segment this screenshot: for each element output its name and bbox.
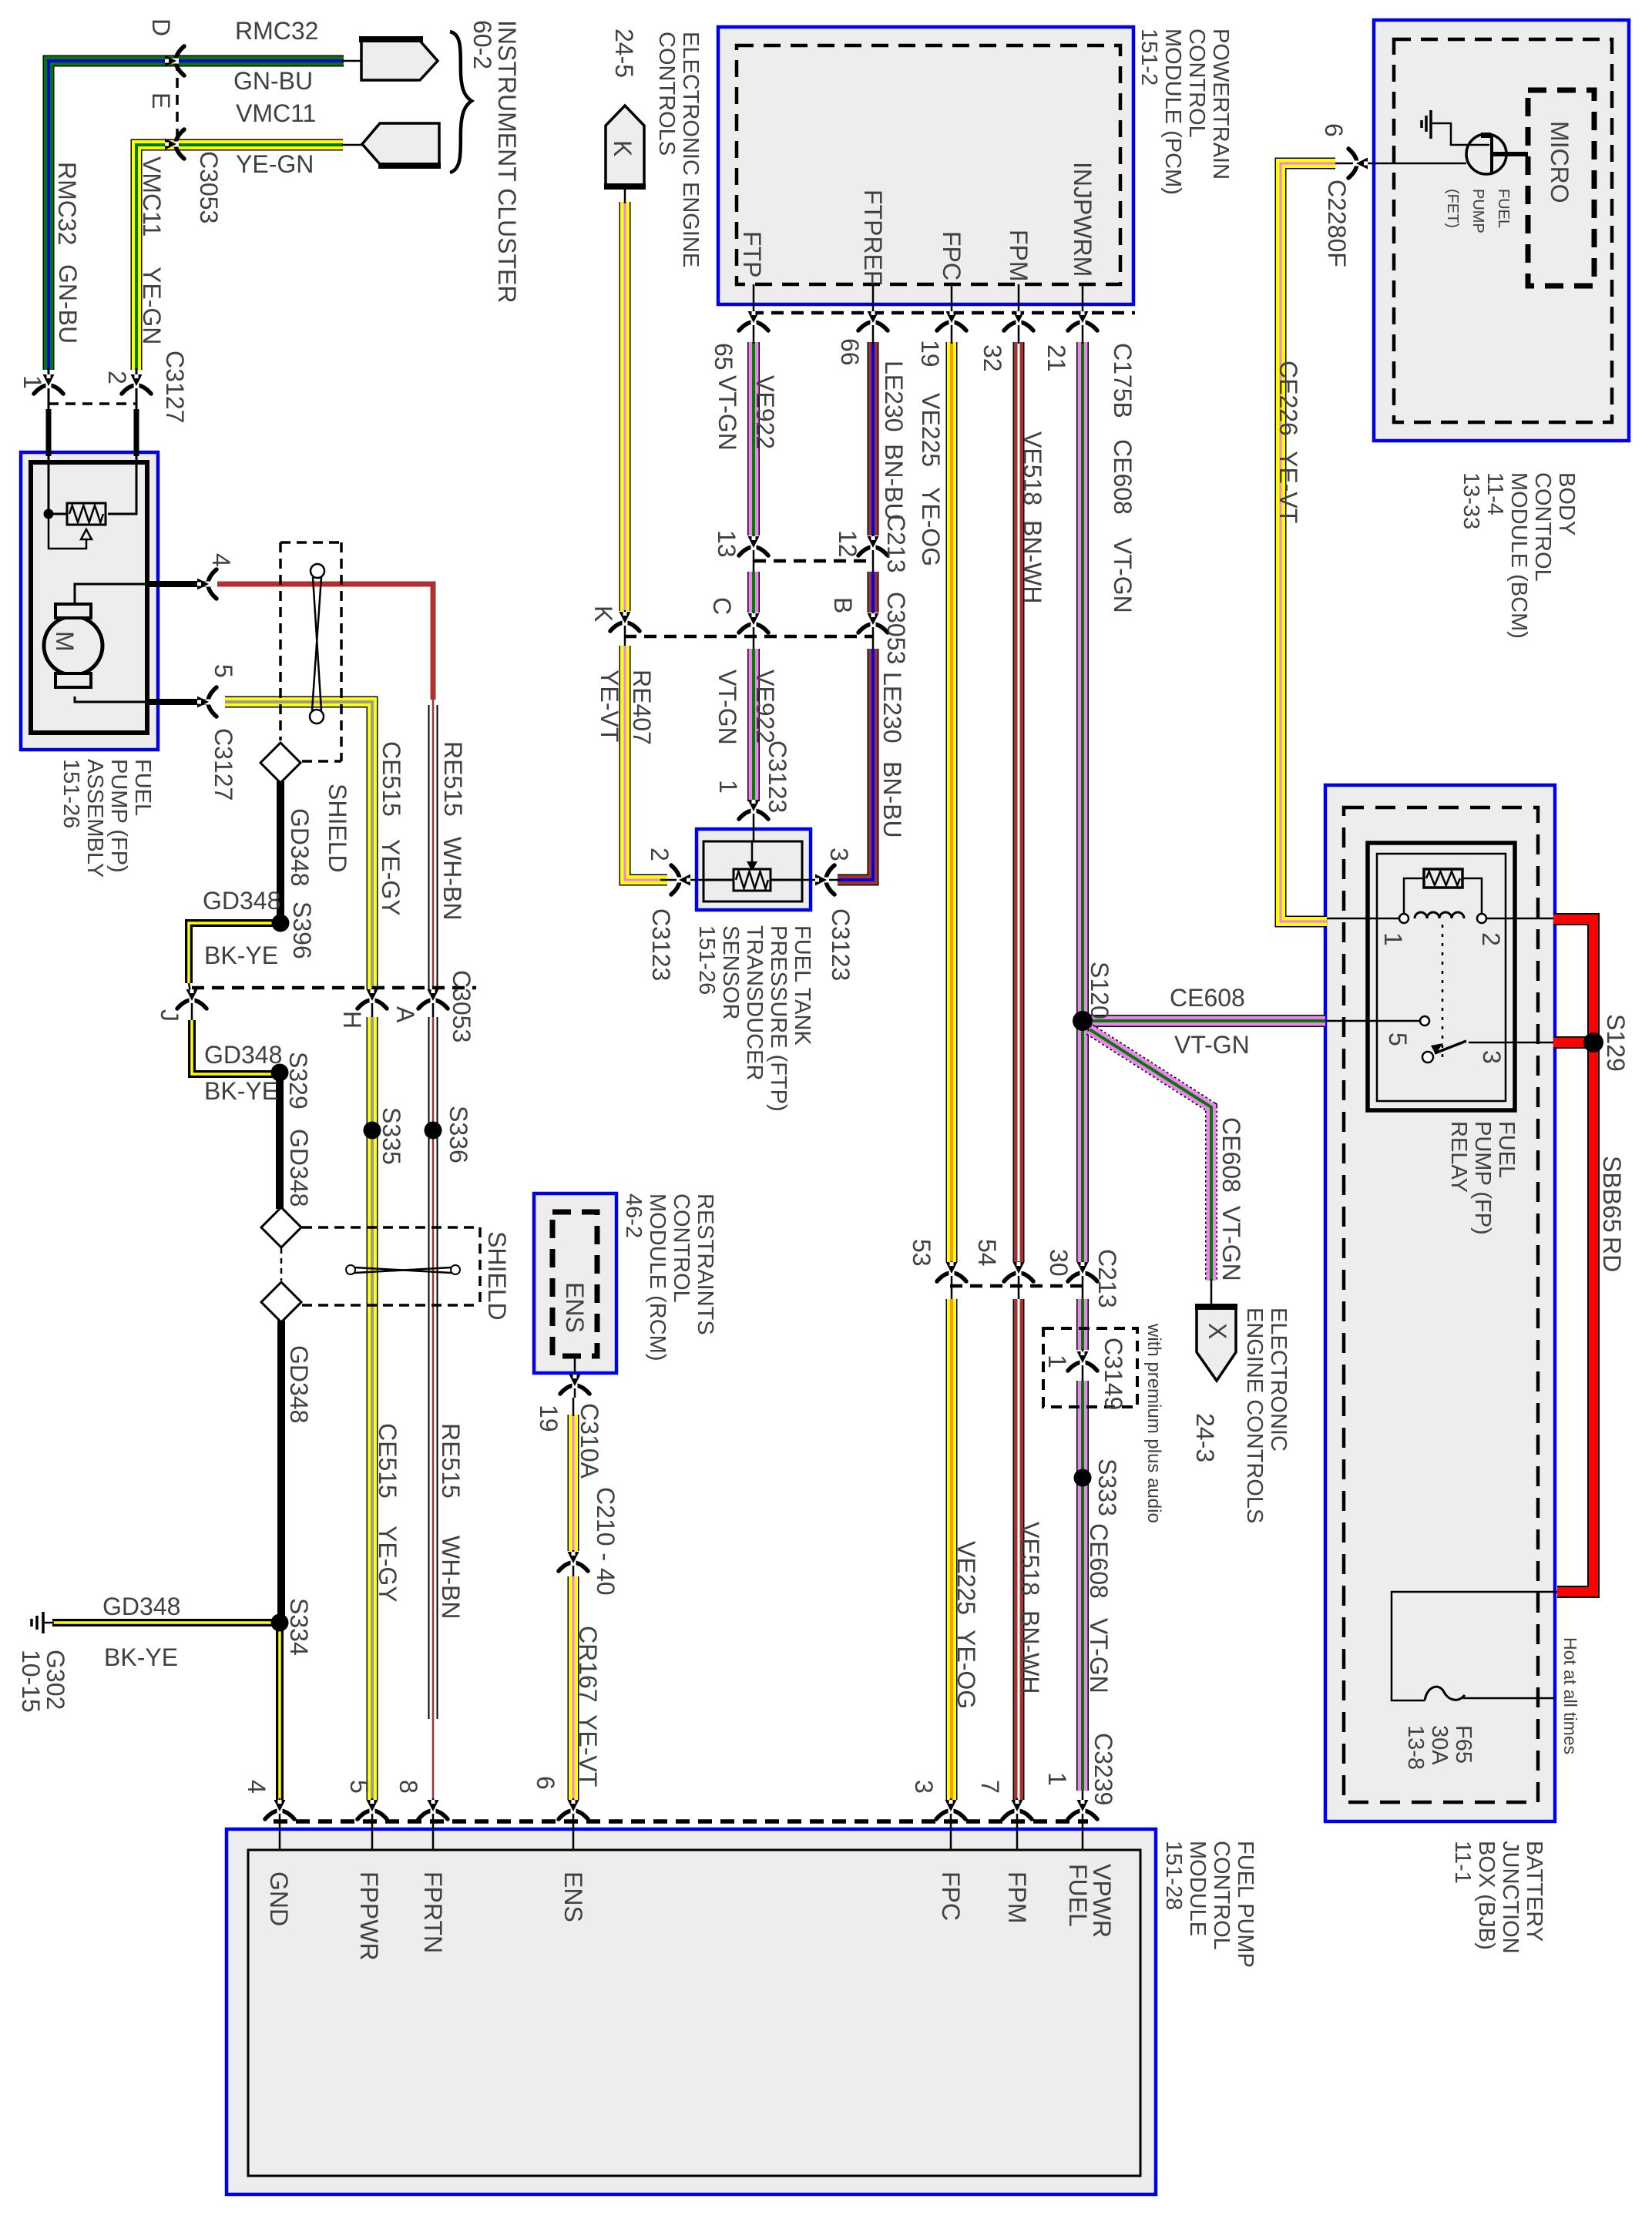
svg-text:5: 5 <box>345 1780 373 1794</box>
svg-text:C310A: C310A <box>576 1403 603 1479</box>
svg-text:CONTROL: CONTROL <box>1209 1841 1234 1950</box>
svg-text:S333: S333 <box>1093 1459 1121 1516</box>
svg-text:VT-GN: VT-GN <box>714 670 741 745</box>
FPCM pin arrow <box>265 1800 294 1819</box>
svg-text:S396: S396 <box>288 901 316 959</box>
svg-text:C175B: C175B <box>1109 343 1137 418</box>
svg-text:C: C <box>708 597 736 615</box>
shield diamond 1 <box>260 743 301 783</box>
svg-text:151-26: 151-26 <box>59 759 83 828</box>
connector C3239 dashed <box>274 1819 1088 1824</box>
svg-text:GN-BU: GN-BU <box>233 67 313 95</box>
splice S396 <box>272 915 290 932</box>
svg-text:11-4: 11-4 <box>1482 472 1507 515</box>
svg-text:SHIELD: SHIELD <box>483 1231 511 1321</box>
svg-text:FUEL: FUEL <box>130 759 155 816</box>
PCM pin arrow <box>1004 311 1033 331</box>
svg-text:VT-GN: VT-GN <box>1174 1031 1250 1059</box>
pin D arrow <box>165 46 184 76</box>
svg-text:S335: S335 <box>378 1107 405 1165</box>
ground (BCM) <box>1429 110 1432 139</box>
wire LE230 BN-BU seg2 <box>868 572 879 613</box>
svg-text:54: 54 <box>973 1239 1001 1267</box>
FPCM box <box>227 1829 1156 2194</box>
fuel pump relay box <box>1368 843 1515 1110</box>
svg-text:CE515: CE515 <box>378 741 405 817</box>
svg-text:FPC: FPC <box>937 1872 965 1921</box>
svg-text:PUMP (FP): PUMP (FP) <box>106 759 131 873</box>
wire CR167 YE-VT upper <box>568 1415 579 1551</box>
svg-text:32: 32 <box>979 344 1006 372</box>
svg-text:YE-GN: YE-GN <box>138 267 166 344</box>
svg-text:ELECTRONIC: ELECTRONIC <box>1266 1308 1291 1452</box>
svg-text:FPM: FPM <box>1005 230 1032 282</box>
svg-text:(FET): (FET) <box>1444 189 1461 228</box>
connector C213 (53 54 30) dashed <box>950 1284 1088 1288</box>
svg-text:YE-VT: YE-VT <box>1274 451 1302 523</box>
svg-text:65: 65 <box>710 343 737 371</box>
svg-text:PUMP: PUMP <box>1469 189 1486 233</box>
splice S129 <box>1583 1032 1603 1052</box>
pin 2 arrow <box>122 374 151 394</box>
svg-text:BODY: BODY <box>1554 472 1579 535</box>
svg-text:2: 2 <box>103 371 131 384</box>
wire VE518 BN-WH lower <box>1013 1299 1025 1800</box>
svg-text:SHIELD: SHIELD <box>324 784 351 873</box>
node sender junction <box>44 509 54 519</box>
svg-text:C213: C213 <box>882 514 910 573</box>
pin E arrow <box>165 129 184 159</box>
svg-text:JUNCTION: JUNCTION <box>1498 1841 1523 1954</box>
svg-text:C3053: C3053 <box>448 970 475 1042</box>
svg-text:ENGINE CONTROLS: ENGINE CONTROLS <box>1242 1308 1267 1523</box>
svg-text:CR167: CR167 <box>574 1626 602 1703</box>
splice S336 <box>425 1122 442 1140</box>
svg-text:C3127: C3127 <box>161 351 189 423</box>
splice S120 <box>1073 1011 1093 1031</box>
svg-text:FUEL: FUEL <box>1494 1121 1519 1178</box>
connector C175B dashed <box>751 311 1135 315</box>
pin 1 (C3149) arrow <box>1068 1351 1097 1371</box>
svg-text:3: 3 <box>1478 1050 1506 1064</box>
FPCM pin stubs <box>279 1798 281 1850</box>
splice S329 <box>271 1064 289 1082</box>
pin A arrow <box>418 989 448 1009</box>
wire GD348 shield to S334 <box>277 1321 285 1618</box>
svg-text:C3123: C3123 <box>827 908 855 981</box>
svg-text:X: X <box>1204 1323 1231 1339</box>
dash between shield diamonds <box>280 1248 283 1281</box>
svg-text:BK-YE: BK-YE <box>204 942 278 969</box>
wire LE230 BN-BU seg3 <box>838 649 873 880</box>
wire pin2 stub <box>134 409 139 456</box>
svg-text:H: H <box>338 1011 366 1029</box>
connector C3127 dashed <box>49 402 136 405</box>
wire FP pin5 internal <box>75 697 158 702</box>
pin 19 (C310A) arrow <box>560 1375 589 1394</box>
shield dashed box (twisted pair) <box>280 541 341 544</box>
FPCM pin arrow <box>936 1800 965 1819</box>
svg-text:INJPWRM: INJPWRM <box>1069 162 1096 277</box>
pin 1 arrow <box>34 374 63 394</box>
svg-text:CONTROL: CONTROL <box>669 1193 693 1303</box>
svg-text:BN-BU: BN-BU <box>880 444 908 521</box>
svg-text:S334: S334 <box>285 1598 313 1656</box>
svg-text:FPRTN: FPRTN <box>419 1872 447 1953</box>
wire SBB65 RD <box>1553 919 1593 1592</box>
relay internals <box>1327 918 1402 920</box>
svg-text:MODULE: MODULE <box>1185 1841 1210 1936</box>
fuel pump assembly box <box>21 452 158 750</box>
BCM box <box>1374 20 1629 441</box>
svg-text:CE226: CE226 <box>1274 361 1302 436</box>
svg-text:CONTROLS: CONTROLS <box>654 32 679 156</box>
svg-text:7: 7 <box>976 1780 1004 1794</box>
wire RD stub to relay pin3 <box>1553 1036 1593 1049</box>
svg-text:3: 3 <box>825 848 853 861</box>
svg-text:ELECTRONIC ENGINE: ELECTRONIC ENGINE <box>678 32 703 267</box>
twisted pair <box>311 564 324 578</box>
relay coil left lead <box>1404 878 1424 914</box>
relay pin3 lead <box>1469 1042 1553 1044</box>
fuse F65 circuit <box>1392 1592 1557 1700</box>
pin 3 (C3123) arrow <box>815 865 834 895</box>
svg-text:12: 12 <box>834 530 861 558</box>
PCM box <box>718 27 1133 304</box>
battery junction box <box>1325 785 1555 1821</box>
wire CE515 YE-GY upper <box>225 702 372 989</box>
svg-text:CONTROL: CONTROL <box>1530 472 1555 582</box>
svg-text:CE608: CE608 <box>1217 1117 1245 1193</box>
relay actuation dotted <box>1442 925 1444 1062</box>
svg-text:F65: F65 <box>1451 1725 1476 1764</box>
svg-text:4: 4 <box>207 553 235 567</box>
wire CE608 VT-GN (INJPWRM) <box>1076 342 1089 1262</box>
connector C3053 (K C B) dashed <box>624 635 873 639</box>
connector pentagon K <box>606 106 644 185</box>
wire pin1 stub <box>46 409 52 456</box>
svg-text:13-8: 13-8 <box>1403 1725 1428 1770</box>
shield crossing symbol <box>346 1265 355 1274</box>
svg-text:GD348: GD348 <box>203 887 280 915</box>
svg-text:GD348: GD348 <box>285 1345 313 1423</box>
svg-text:FUEL: FUEL <box>1495 189 1512 228</box>
pin C arrow <box>739 613 768 633</box>
svg-text:VT-GN: VT-GN <box>1217 1206 1245 1281</box>
svg-text:D: D <box>147 18 175 36</box>
pin 12 arrow <box>858 536 888 556</box>
svg-text:S129: S129 <box>1602 1014 1630 1072</box>
svg-text:151-28: 151-28 <box>1161 1841 1186 1910</box>
connector C213 (13 12) dashed <box>754 559 873 563</box>
svg-text:INSTRUMENT CLUSTER: INSTRUMENT CLUSTER <box>493 20 521 303</box>
svg-text:YE-GN: YE-GN <box>236 150 314 178</box>
svg-text:C3149: C3149 <box>1100 1338 1127 1410</box>
svg-text:RD: RD <box>1598 1237 1626 1272</box>
shield dashed box 2 <box>302 1226 480 1229</box>
RCM pin lead <box>574 1356 576 1398</box>
svg-text:VE225: VE225 <box>952 1541 980 1615</box>
FET source to pin6 <box>1362 163 1466 165</box>
svg-text:YE-VT: YE-VT <box>596 670 623 742</box>
svg-text:GD348: GD348 <box>286 808 314 886</box>
C210-40 arrow <box>559 1552 588 1571</box>
svg-text:VMC11: VMC11 <box>138 156 166 237</box>
svg-text:1: 1 <box>714 780 742 794</box>
wire CE608 seg2 <box>1076 1299 1089 1350</box>
svg-text:1: 1 <box>1379 932 1407 946</box>
svg-text:C3127: C3127 <box>210 728 237 801</box>
shield diamond 3 <box>261 1282 301 1322</box>
svg-text:C2280F: C2280F <box>1323 180 1351 267</box>
svg-text:4: 4 <box>243 1780 270 1794</box>
svg-text:CONTROL: CONTROL <box>1184 29 1209 138</box>
svg-text:LE230: LE230 <box>880 361 908 432</box>
wire VMC11 YE-GN <box>136 145 343 370</box>
pin 54 arrow <box>1004 1262 1033 1281</box>
FPCM pin arrow <box>559 1800 588 1819</box>
svg-text:YE-GY: YE-GY <box>377 839 405 916</box>
svg-text:B: B <box>829 597 857 613</box>
pin B arrow <box>858 613 888 633</box>
svg-text:MICRO: MICRO <box>1546 121 1573 203</box>
svg-text:BN-WH: BN-WH <box>1016 1610 1044 1694</box>
FTP sensor internals <box>703 879 802 881</box>
svg-text:30: 30 <box>1045 1249 1073 1277</box>
svg-text:13: 13 <box>713 530 740 558</box>
svg-text:ENS: ENS <box>561 1282 589 1333</box>
svg-text:FUEL TANK: FUEL TANK <box>790 925 814 1046</box>
svg-text:YE-OG: YE-OG <box>952 1630 980 1709</box>
svg-text:FUEL: FUEL <box>1064 1864 1092 1927</box>
pin 4 arrow <box>197 569 217 599</box>
motor M <box>44 616 102 675</box>
connector pentagon E <box>362 123 439 164</box>
wire CE608 VT-GN branch to EEC (optional) <box>1090 1029 1211 1281</box>
svg-text:CE608: CE608 <box>1109 439 1137 515</box>
svg-text:6: 6 <box>532 1776 559 1790</box>
wire pin1 lead <box>48 368 50 410</box>
svg-text:BN-WH: BN-WH <box>1019 520 1046 603</box>
svg-text:CE608: CE608 <box>1085 1523 1113 1599</box>
svg-text:GND: GND <box>265 1872 293 1926</box>
svg-text:24-3: 24-3 <box>1191 1413 1219 1462</box>
svg-text:with premium plus audio: with premium plus audio <box>1143 1323 1164 1523</box>
svg-text:RE407: RE407 <box>628 670 656 745</box>
svg-text:19: 19 <box>535 1405 562 1432</box>
svg-text:FPM: FPM <box>1003 1872 1031 1924</box>
svg-text:C3053: C3053 <box>882 592 910 664</box>
svg-text:GD348: GD348 <box>204 1041 282 1069</box>
cluster brace <box>450 32 472 173</box>
svg-text:M: M <box>51 631 79 652</box>
FET gate to MICRO <box>1493 152 1528 156</box>
svg-text:21: 21 <box>1043 344 1070 372</box>
svg-text:K: K <box>609 140 636 156</box>
wire lead to connector E <box>342 144 362 146</box>
pin 30 arrow <box>1068 1262 1097 1281</box>
wire lead to connector D <box>342 60 361 62</box>
wire lead FTP pin3 <box>802 879 840 881</box>
FTP sensor box <box>697 829 811 910</box>
wire GD348 S329 to shield <box>276 1077 284 1209</box>
pin 53 arrow <box>937 1262 966 1281</box>
svg-text:YE-OG: YE-OG <box>917 487 945 566</box>
wire lead FTP pin2 <box>660 879 703 881</box>
svg-text:FPC: FPC <box>938 231 965 280</box>
svg-text:J: J <box>156 1009 183 1022</box>
svg-text:GD348: GD348 <box>102 1593 180 1620</box>
FET drain to ground <box>1432 123 1489 145</box>
wire VE518 BN-WH upper <box>1013 342 1025 1262</box>
svg-text:ENS: ENS <box>559 1872 587 1922</box>
svg-text:MODULE (BCM): MODULE (BCM) <box>1506 472 1531 639</box>
pin 13 arrow <box>739 536 768 556</box>
wire RE407 YE-VT upper <box>619 202 631 611</box>
svg-text:LE230: LE230 <box>878 672 906 744</box>
svg-text:RE515: RE515 <box>439 741 467 817</box>
svg-text:VT-GN: VT-GN <box>714 375 741 451</box>
svg-text:151-26: 151-26 <box>694 925 719 995</box>
svg-text:PRESSURE (FTP): PRESSURE (FTP) <box>766 925 791 1112</box>
wire FP pin4 internal <box>75 584 158 604</box>
FPCM pin arrow <box>358 1800 387 1819</box>
pin 6 (C2280F) arrow <box>1348 149 1368 178</box>
svg-text:30A: 30A <box>1427 1725 1452 1765</box>
pin 1 (C3123) arrow <box>739 800 768 819</box>
wire RE407 YE-VT lower <box>625 646 667 880</box>
wire lead to connector X <box>1210 1279 1213 1310</box>
svg-text:MODULE (PCM): MODULE (PCM) <box>1160 29 1185 195</box>
wire VE225 YE-OG upper <box>946 342 958 1262</box>
svg-text:G302: G302 <box>42 1650 69 1710</box>
svg-text:1: 1 <box>18 375 46 389</box>
connector pentagon X <box>1197 1308 1236 1381</box>
svg-text:46-2: 46-2 <box>621 1193 646 1238</box>
svg-text:19: 19 <box>916 340 944 368</box>
svg-text:FTP: FTP <box>738 231 766 277</box>
svg-text:1: 1 <box>1043 1355 1071 1368</box>
relay switch blade <box>1422 1052 1433 1063</box>
svg-text:SBB65: SBB65 <box>1598 1156 1626 1233</box>
svg-text:S336: S336 <box>445 1106 472 1163</box>
svg-text:2: 2 <box>646 848 673 861</box>
connector pentagon D <box>361 41 438 80</box>
connector C3053 (J H A) dashed <box>192 986 476 990</box>
wire GD348 BK-YE S334 to FPCM <box>276 1627 284 1800</box>
FPCM pin arrow <box>418 1800 448 1819</box>
svg-text:GD348: GD348 <box>285 1129 313 1207</box>
svg-text:C3239: C3239 <box>1090 1733 1117 1805</box>
connector C3149 dashed box <box>1043 1328 1137 1407</box>
svg-text:151-2: 151-2 <box>1137 29 1161 86</box>
svg-text:WH-BN: WH-BN <box>437 1536 465 1619</box>
svg-text:8: 8 <box>395 1780 422 1794</box>
svg-text:24-5: 24-5 <box>610 29 638 78</box>
svg-text:CE515: CE515 <box>374 1423 401 1499</box>
wire shield drain to S396 <box>277 781 284 918</box>
svg-text:11-1: 11-1 <box>1450 1841 1475 1884</box>
svg-text:WH-BN: WH-BN <box>438 837 466 920</box>
ground G302 <box>42 1612 45 1633</box>
svg-text:BK-YE: BK-YE <box>104 1643 178 1671</box>
wire GD348 BK-YE: S396 to J <box>189 923 280 983</box>
splice S335 <box>364 1122 381 1140</box>
svg-text:S329: S329 <box>284 1052 312 1109</box>
wire CE226 YE-VT <box>1281 163 1335 922</box>
PCM pin arrow <box>739 311 768 331</box>
svg-text:VE225: VE225 <box>917 393 945 467</box>
RCM box <box>534 1193 616 1373</box>
svg-text:BN-BU: BN-BU <box>878 761 906 838</box>
svg-text:66: 66 <box>836 338 864 366</box>
wire VE922 VT-GN seg3 <box>747 649 760 801</box>
svg-text:RMC32: RMC32 <box>235 17 318 45</box>
svg-text:5: 5 <box>210 664 237 678</box>
svg-text:FPPWR: FPPWR <box>355 1872 383 1961</box>
svg-text:RESTRAINTS: RESTRAINTS <box>693 1193 717 1335</box>
svg-text:C213: C213 <box>1093 1249 1121 1308</box>
svg-text:VT-GN: VT-GN <box>1109 538 1137 613</box>
svg-text:Hot at all times: Hot at all times <box>1560 1637 1580 1754</box>
wire VE922 VT-GN seg1 <box>747 342 760 535</box>
svg-text:FTPREF: FTPREF <box>859 190 887 285</box>
pin J arrow <box>177 989 206 1009</box>
svg-text:CE608: CE608 <box>1170 984 1245 1012</box>
svg-text:VT-GN: VT-GN <box>1085 1618 1113 1694</box>
wire VE225 YE-OG lower <box>946 1299 958 1800</box>
PCM pin arrow <box>937 311 966 331</box>
svg-text:2: 2 <box>1477 932 1505 946</box>
shield diamond 2 <box>261 1207 301 1247</box>
relay pin5 lead <box>1327 1020 1420 1022</box>
svg-text:POWERTRAIN: POWERTRAIN <box>1208 29 1233 180</box>
svg-text:VE518: VE518 <box>1019 431 1046 505</box>
svg-text:GN-BU: GN-BU <box>54 264 82 344</box>
svg-text:10-15: 10-15 <box>17 1650 45 1713</box>
svg-text:BOX (BJB): BOX (BJB) <box>1474 1841 1499 1950</box>
svg-text:YE-GY: YE-GY <box>374 1526 401 1603</box>
svg-text:K: K <box>589 606 617 622</box>
svg-text:YE-VT: YE-VT <box>574 1714 602 1787</box>
wire LE230 BN-BU seg1 <box>868 342 879 535</box>
svg-text:S120: S120 <box>1086 962 1113 1019</box>
svg-text:VE518: VE518 <box>1016 1522 1044 1596</box>
svg-text:SENSOR: SENSOR <box>718 925 743 1019</box>
connector C3053 (cluster) dashed <box>176 61 179 144</box>
svg-text:VE922: VE922 <box>751 375 779 449</box>
svg-text:PUMP (FP): PUMP (FP) <box>1470 1121 1495 1235</box>
wire fuel pump feed RD <box>217 584 433 700</box>
svg-text:5: 5 <box>1384 1032 1412 1046</box>
pin K arrow <box>610 612 640 631</box>
svg-text:C3053: C3053 <box>195 151 223 223</box>
svg-text:A: A <box>391 1006 419 1023</box>
FPCM pin arrow <box>1002 1800 1032 1819</box>
wire RE515 WH-BN <box>428 705 438 989</box>
svg-text:FUEL PUMP: FUEL PUMP <box>1233 1841 1257 1968</box>
svg-text:C3123: C3123 <box>764 740 791 813</box>
wire RMC32 GN-BU <box>49 61 344 370</box>
wire CE608 VT-GN to relay <box>1088 1015 1325 1027</box>
PCM pin arrow <box>858 311 888 331</box>
relay coil right lead <box>1462 878 1482 914</box>
svg-text:3: 3 <box>910 1780 938 1794</box>
svg-text:RELAY: RELAY <box>1446 1121 1471 1193</box>
svg-text:E: E <box>147 92 175 109</box>
svg-text:1: 1 <box>1043 1772 1071 1786</box>
svg-text:6: 6 <box>1320 123 1348 137</box>
